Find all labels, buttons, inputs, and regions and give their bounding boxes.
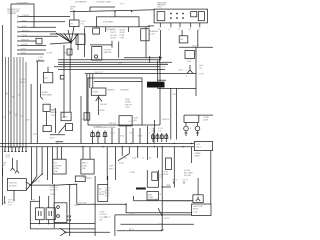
wire drops xyxy=(122,147,157,160)
transistor Y 1 xyxy=(11,165,15,170)
svg-text:461: 461 xyxy=(199,68,202,70)
svg-text:BK/LG 57: BK/LG 57 xyxy=(50,190,57,192)
svg-text:W 986: W 986 xyxy=(120,32,125,34)
svg-text:463: 463 xyxy=(134,120,137,122)
wire xyxy=(115,214,192,216)
fuse panel wide box xyxy=(97,17,140,27)
svg-text:O 975: O 975 xyxy=(21,53,26,55)
key warning box xyxy=(44,73,53,83)
component box1 xyxy=(53,159,66,174)
wire xyxy=(54,60,160,67)
wire xyxy=(47,67,49,73)
tick marks xyxy=(68,215,71,221)
svg-text:W 921: W 921 xyxy=(161,66,166,68)
svg-text:IGNITION: IGNITION xyxy=(9,183,17,185)
contacts xyxy=(57,206,60,209)
main connector table box xyxy=(154,9,207,23)
wire xyxy=(142,124,160,126)
diagonal xyxy=(158,208,162,216)
switch diagonal xyxy=(59,125,66,133)
wire xyxy=(19,40,36,42)
svg-text:C251: C251 xyxy=(172,94,176,96)
wire xyxy=(13,158,18,168)
svg-text:LG/R 7: LG/R 7 xyxy=(109,166,114,168)
fuel pump box xyxy=(147,192,159,200)
svg-text:BK 57: BK 57 xyxy=(165,218,170,220)
connector caps xyxy=(5,147,26,152)
svg-text:DG/O 199: DG/O 199 xyxy=(78,202,86,204)
contact circle xyxy=(94,55,97,58)
ignition module box xyxy=(179,36,188,43)
wire xyxy=(210,151,212,204)
wire top bus xyxy=(70,10,154,12)
wire xyxy=(50,33,62,35)
component box2 xyxy=(81,159,94,174)
svg-text:R 511: R 511 xyxy=(158,128,162,130)
elbow wire xyxy=(41,84,43,100)
svg-text:R/W 137: R/W 137 xyxy=(109,123,116,125)
wire xyxy=(190,147,192,163)
switch box tall xyxy=(54,203,67,223)
wire xyxy=(73,10,75,20)
box outline xyxy=(88,78,142,125)
wire xyxy=(69,184,71,236)
svg-text:P/O 980: P/O 980 xyxy=(110,35,116,37)
lamp box1 xyxy=(36,208,45,220)
svg-text:P/LB 957: P/LB 957 xyxy=(161,64,168,66)
wire xyxy=(58,61,172,63)
wire xyxy=(170,88,172,139)
svg-text:C 57: C 57 xyxy=(158,223,162,225)
svg-text:LAMP SW: LAMP SW xyxy=(104,51,112,54)
feeder wires xyxy=(87,74,93,120)
svg-text:12: 12 xyxy=(18,94,20,96)
inner box right1 xyxy=(191,12,197,17)
svg-text:FUSE PANEL: FUSE PANEL xyxy=(103,21,114,24)
svg-text:C 54: C 54 xyxy=(151,128,155,130)
wire xyxy=(36,61,38,144)
svg-text:14401: 14401 xyxy=(196,146,201,148)
wire drops from bus xyxy=(32,147,53,200)
wire xyxy=(159,62,161,125)
small side box xyxy=(84,113,90,120)
svg-text:W/P 57: W/P 57 xyxy=(74,205,80,207)
bottom junction xyxy=(60,228,110,236)
svg-text:R 63: R 63 xyxy=(22,26,26,28)
svg-text:LG 462: LG 462 xyxy=(129,172,135,174)
inner box top xyxy=(91,88,106,95)
wire xyxy=(94,176,96,236)
wire xyxy=(176,88,178,139)
svg-text:W 14: W 14 xyxy=(120,136,124,138)
wire tick xyxy=(4,196,6,203)
connector box C xyxy=(141,29,149,41)
bulb symbol xyxy=(184,126,189,131)
svg-text:BK/W 28: BK/W 28 xyxy=(22,30,29,32)
svg-text:G 904: G 904 xyxy=(178,70,183,72)
svg-text:BR/PK: BR/PK xyxy=(87,178,93,180)
wire xyxy=(19,45,46,47)
dark dash xyxy=(136,188,146,190)
wire xyxy=(90,44,112,46)
end tick xyxy=(161,229,164,231)
svg-text:DG/W 58: DG/W 58 xyxy=(22,15,29,17)
wire xyxy=(114,11,116,16)
wire xyxy=(8,57,10,148)
wire xyxy=(126,204,192,213)
wire xyxy=(19,26,56,28)
cap ticks xyxy=(4,151,27,153)
wire xyxy=(98,103,100,115)
wire xyxy=(13,57,15,148)
wire xyxy=(19,31,56,33)
transistor xyxy=(187,65,193,74)
wire xyxy=(19,35,58,37)
diagonal xyxy=(118,154,129,161)
svg-text:C 310: C 310 xyxy=(150,34,155,36)
svg-text:SW: SW xyxy=(70,9,73,11)
wire xyxy=(173,147,175,188)
top small box xyxy=(75,176,85,182)
svg-text:HOT AT: HOT AT xyxy=(184,169,191,172)
wire xyxy=(19,53,44,55)
dark blob label xyxy=(147,82,165,88)
horn relay box xyxy=(61,112,71,121)
left group glyphs xyxy=(153,133,166,142)
glyph trapezoids xyxy=(91,133,95,137)
inner box bottom xyxy=(119,116,132,126)
svg-text:A 297: A 297 xyxy=(25,119,29,122)
svg-text:37: 37 xyxy=(158,29,160,31)
breaker box xyxy=(36,38,42,44)
svg-text:BK 57: BK 57 xyxy=(64,53,69,55)
svg-text:R 511: R 511 xyxy=(129,133,133,135)
svg-text:LB 977: LB 977 xyxy=(110,30,115,32)
svg-text:21: 21 xyxy=(169,29,171,31)
star junction xyxy=(26,174,56,190)
lamp box2 xyxy=(46,208,55,220)
long vertical xyxy=(80,96,82,144)
wire xyxy=(19,57,21,148)
junction xyxy=(114,11,115,12)
svg-text:977: 977 xyxy=(159,177,162,179)
wire xyxy=(128,27,130,32)
svg-text:BK 57: BK 57 xyxy=(138,136,143,138)
svg-text:LG/R 7: LG/R 7 xyxy=(105,187,110,189)
wire xyxy=(105,27,107,32)
svg-text:R/Y 9: R/Y 9 xyxy=(105,196,109,198)
junction dot xyxy=(161,186,163,188)
long vertical xyxy=(161,147,163,230)
wire xyxy=(84,28,86,57)
wire xyxy=(153,120,155,133)
svg-text:BK 57: BK 57 xyxy=(5,157,10,159)
pin dots row xyxy=(170,13,171,14)
svg-text:HOT AT ALL TIMES: HOT AT ALL TIMES xyxy=(96,0,112,3)
svg-text:DG 979: DG 979 xyxy=(110,32,116,34)
glyph xyxy=(39,211,42,216)
svg-text:4: 4 xyxy=(186,76,187,78)
svg-text:W/R 2: W/R 2 xyxy=(109,168,114,170)
svg-text:SW: SW xyxy=(99,220,102,222)
svg-text:O/LB 483: O/LB 483 xyxy=(97,110,104,112)
svg-text:GY 993: GY 993 xyxy=(46,53,52,55)
svg-text:FUEL PUMP: FUEL PUMP xyxy=(193,206,204,208)
relay box with contact xyxy=(92,47,102,61)
wire xyxy=(145,27,147,58)
svg-text:MODULE: MODULE xyxy=(9,185,17,187)
wire xyxy=(184,114,213,116)
wire xyxy=(105,203,126,205)
svg-text:W/S WASHER: W/S WASHER xyxy=(75,0,87,3)
wire from star xyxy=(56,184,77,204)
wire xyxy=(58,68,165,70)
svg-text:WIRE HARN: WIRE HARN xyxy=(42,94,53,97)
junction xyxy=(131,11,132,12)
transistor Y 2 xyxy=(15,168,19,173)
svg-text:BR 984: BR 984 xyxy=(120,30,126,32)
svg-text:C 610: C 610 xyxy=(21,79,26,81)
bus lower xyxy=(0,146,194,148)
svg-text:BK 57: BK 57 xyxy=(105,193,110,195)
svg-text:F 2.7: F 2.7 xyxy=(120,4,124,6)
wire xyxy=(118,42,120,58)
svg-text:F14 20A: F14 20A xyxy=(184,174,191,177)
wire xyxy=(2,25,4,205)
sender box upper xyxy=(147,170,158,187)
svg-text:57: 57 xyxy=(198,29,200,31)
svg-text:Y 21: Y 21 xyxy=(118,63,122,65)
junction dots xyxy=(39,223,40,224)
svg-text:HAZARD: HAZARD xyxy=(107,89,115,92)
wire xyxy=(30,200,39,202)
wire xyxy=(84,26,150,28)
svg-text:BK 57: BK 57 xyxy=(129,229,134,231)
fuse holder narrow box xyxy=(152,172,158,180)
wire xyxy=(162,200,193,202)
svg-text:HOT IN: HOT IN xyxy=(162,171,169,173)
narrow fuse box xyxy=(166,158,172,170)
wire xyxy=(197,30,199,47)
svg-text:RUN F6: RUN F6 xyxy=(162,174,168,176)
svg-text:TO STOP: TO STOP xyxy=(104,49,112,51)
svg-text:LG/BK 54: LG/BK 54 xyxy=(162,119,169,121)
svg-text:16: 16 xyxy=(178,29,180,31)
svg-text:TO A/C: TO A/C xyxy=(99,210,105,213)
svg-text:O 21: O 21 xyxy=(8,204,12,206)
wire xyxy=(181,30,183,36)
svg-text:FUEL: FUEL xyxy=(148,194,152,196)
svg-text:W/R 2: W/R 2 xyxy=(105,190,110,192)
svg-text:G/Y 57: G/Y 57 xyxy=(129,213,134,215)
svg-text:LG 12: LG 12 xyxy=(110,133,115,135)
svg-text:BK 57: BK 57 xyxy=(34,134,39,136)
bulb symbol xyxy=(195,126,200,131)
long pin wires xyxy=(160,30,162,61)
connector box A xyxy=(76,34,85,45)
pin drops below table xyxy=(160,23,200,27)
wire xyxy=(62,34,78,50)
wire drops xyxy=(112,126,154,144)
wire xyxy=(134,200,193,202)
mini connector box xyxy=(67,49,72,55)
wire xyxy=(16,57,18,148)
wire xyxy=(19,49,46,51)
wire xyxy=(13,190,15,201)
svg-text:ALL TIMES: ALL TIMES xyxy=(184,172,194,175)
svg-text:W 56: W 56 xyxy=(22,20,26,22)
wire xyxy=(111,41,113,48)
small box xyxy=(66,124,73,131)
wire xyxy=(184,115,199,122)
svg-text:G/O 4: G/O 4 xyxy=(82,119,87,121)
wire xyxy=(19,15,70,17)
wire xyxy=(179,46,213,48)
svg-text:LIGHTER: LIGHTER xyxy=(54,165,62,167)
wire xyxy=(40,220,49,224)
junction fan xyxy=(96,95,102,103)
svg-text:LG/W: LG/W xyxy=(134,118,139,120)
svg-text:57: 57 xyxy=(3,116,5,118)
wire xyxy=(162,186,171,188)
svg-text:TO W/S WIPER: TO W/S WIPER xyxy=(16,3,29,5)
svg-text:HORN: HORN xyxy=(62,117,68,119)
wire xyxy=(77,203,105,205)
lamp drop left xyxy=(185,123,187,127)
svg-text:511: 511 xyxy=(15,113,17,116)
svg-text:BK 57: BK 57 xyxy=(21,82,26,84)
svg-text:C 249: C 249 xyxy=(186,61,191,63)
svg-text:C 320: C 320 xyxy=(125,107,130,109)
wiper switch box xyxy=(70,20,80,27)
wire xyxy=(117,230,162,232)
wire end ticks xyxy=(17,15,19,55)
glyph xyxy=(49,211,52,216)
svg-text:R 988: R 988 xyxy=(120,35,125,37)
long verticals xyxy=(107,147,115,180)
bottom wires xyxy=(30,224,95,229)
junction box xyxy=(43,104,50,111)
svg-text:P 61: P 61 xyxy=(81,24,85,26)
wire xyxy=(36,60,44,62)
svg-text:DG 14: DG 14 xyxy=(183,180,188,182)
wire xyxy=(30,84,32,144)
wire xyxy=(197,178,199,195)
svg-text:TURN: TURN xyxy=(125,99,131,101)
svg-text:DG/P 9: DG/P 9 xyxy=(50,194,56,196)
wire step xyxy=(90,7,115,11)
inner wire xyxy=(94,81,142,83)
small inline box xyxy=(60,75,64,79)
junction star fan xyxy=(50,27,78,51)
svg-text:137: 137 xyxy=(9,111,11,114)
svg-text:W/P 57: W/P 57 xyxy=(34,181,40,183)
wire xyxy=(121,223,194,225)
junction xyxy=(125,203,127,205)
svg-text:Y/R 61: Y/R 61 xyxy=(22,35,27,37)
junction dot xyxy=(161,214,163,216)
svg-text:4 DR W 14: 4 DR W 14 xyxy=(94,126,102,128)
wire stubs xyxy=(150,56,160,63)
wire xyxy=(158,79,166,81)
svg-text:57: 57 xyxy=(21,115,23,117)
wire xyxy=(107,176,109,185)
svg-text:P 977: P 977 xyxy=(21,49,25,51)
relay text box xyxy=(192,204,211,216)
svg-text:LAMP: LAMP xyxy=(203,118,209,121)
wire xyxy=(50,108,65,142)
junction dot xyxy=(41,173,43,175)
svg-text:C 290: C 290 xyxy=(50,115,55,117)
svg-text:SIGNAL: SIGNAL xyxy=(125,101,131,104)
svg-text:FLASHER: FLASHER xyxy=(121,89,130,92)
wire xyxy=(133,196,135,201)
svg-text:T 27: T 27 xyxy=(151,131,154,133)
svg-text:54: 54 xyxy=(12,96,14,98)
svg-text:Y 24: Y 24 xyxy=(147,133,151,135)
svg-text:BK 57: BK 57 xyxy=(105,216,110,218)
svg-text:P 57: P 57 xyxy=(32,199,36,201)
wire xyxy=(114,215,116,236)
svg-text:FLASH: FLASH xyxy=(92,91,98,94)
header ticks xyxy=(174,182,185,184)
wire xyxy=(158,72,196,74)
svg-text:G 977: G 977 xyxy=(199,74,204,76)
svg-text:W 462: W 462 xyxy=(119,162,124,164)
wire drops xyxy=(57,147,90,160)
svg-text:R/Y 21: R/Y 21 xyxy=(172,180,177,182)
svg-text:T/W 993: T/W 993 xyxy=(21,44,27,46)
component box xyxy=(185,51,195,59)
wire xyxy=(19,21,65,23)
svg-text:HARN: HARN xyxy=(194,155,200,158)
connector glyphs xyxy=(93,131,106,144)
transistor glyph xyxy=(196,197,200,202)
svg-text:O 31: O 31 xyxy=(158,131,162,133)
svg-text:RELAY: RELAY xyxy=(193,208,199,211)
wire xyxy=(46,111,48,125)
transistor box xyxy=(193,195,203,203)
wire xyxy=(64,45,70,118)
svg-text:LG 973: LG 973 xyxy=(128,121,134,123)
wire xyxy=(85,73,158,75)
svg-text:T/LG 238: T/LG 238 xyxy=(150,199,157,201)
junction dots xyxy=(57,143,58,144)
lamp drop right xyxy=(197,123,199,127)
svg-text:C100 BK/W: C100 BK/W xyxy=(7,13,16,15)
wire xyxy=(53,184,55,228)
inner box right2 xyxy=(198,12,204,21)
svg-text:C 56: C 56 xyxy=(51,44,55,46)
svg-text:463: 463 xyxy=(2,165,5,167)
wire xyxy=(5,57,7,148)
wire xyxy=(10,4,12,148)
wire top loop xyxy=(11,4,34,28)
wire xyxy=(124,57,162,59)
svg-text:G/W 481: G/W 481 xyxy=(100,104,107,106)
svg-text:R 16: R 16 xyxy=(96,58,100,60)
bus upper xyxy=(0,143,194,145)
svg-text:HEATER: HEATER xyxy=(50,111,58,114)
wire tick xyxy=(2,168,4,176)
feeder verticals xyxy=(30,196,48,229)
wire xyxy=(58,64,168,66)
svg-text:C 103: C 103 xyxy=(193,211,198,213)
relay box xyxy=(7,179,26,191)
lower box xyxy=(43,126,51,132)
wire xyxy=(148,25,154,27)
svg-text:BK/O 977: BK/O 977 xyxy=(95,72,102,74)
